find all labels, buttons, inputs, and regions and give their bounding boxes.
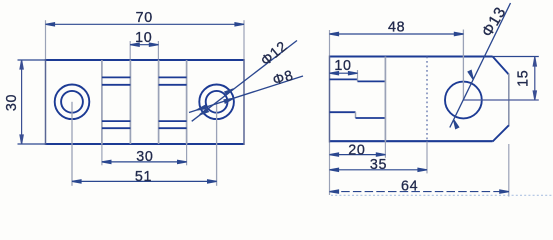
svg-text:30: 30 xyxy=(136,149,153,165)
svg-text:70: 70 xyxy=(136,10,153,26)
left view plate bottom edge xyxy=(46,143,245,145)
dimension 64 line xyxy=(330,190,509,193)
dimension 48 line xyxy=(330,32,464,35)
right view left edge xyxy=(329,56,331,143)
right hole inner circle xyxy=(206,91,228,113)
dimension 35 right extension xyxy=(426,142,428,174)
dimension 30 left side line xyxy=(20,60,23,144)
svg-text:15: 15 xyxy=(515,70,531,87)
right view bottom edge xyxy=(330,140,493,142)
right view top-right chamfer xyxy=(493,57,509,75)
slot edge line 2 xyxy=(129,60,131,144)
svg-text:30: 30 xyxy=(4,94,20,111)
svg-text:Φ8: Φ8 xyxy=(271,68,296,89)
dimension 35 line xyxy=(330,168,428,171)
right view top edge xyxy=(330,56,493,58)
right band groove lines xyxy=(159,77,187,128)
scan artifact dotted line xyxy=(331,194,553,196)
svg-text:35: 35 xyxy=(370,157,387,173)
dimension 20/35/64 left extension xyxy=(329,143,331,196)
left view plate top edge xyxy=(46,59,245,61)
lower step lines xyxy=(330,111,356,113)
left view plate left edge xyxy=(45,59,47,145)
dimension 10 extension (right view) xyxy=(357,70,359,79)
svg-text:51: 51 xyxy=(135,169,152,185)
dimension 30 left side extension lines xyxy=(18,60,46,144)
leader line phi12 xyxy=(192,41,297,122)
right view bottom-right chamfer xyxy=(493,125,509,141)
right hole outer circle xyxy=(199,85,234,120)
slot edge line 4 xyxy=(186,60,188,144)
dimension 20 line xyxy=(330,153,386,156)
leader line phi13 xyxy=(450,3,511,129)
right view right edge xyxy=(508,74,510,127)
hole phi13 circle xyxy=(445,82,482,119)
left hole outer circle xyxy=(55,85,90,120)
hidden dashed line xyxy=(426,57,428,142)
svg-text:20: 20 xyxy=(348,142,365,158)
dimension 10 line (right view) xyxy=(330,72,358,75)
slot edge line 3 xyxy=(158,60,160,144)
dimension 48 extension line xyxy=(329,30,331,56)
dimension 70 extension lines xyxy=(45,20,47,59)
dimension 10 extension lines (left view) xyxy=(129,41,131,60)
left hole centerline xyxy=(71,102,73,186)
svg-text:48: 48 xyxy=(388,20,405,36)
dimension 51 line xyxy=(72,180,217,183)
upper step lines xyxy=(330,78,358,80)
inner vertical edge xyxy=(384,57,386,142)
dimension 30 bottom extension lines xyxy=(101,144,103,165)
hole vertical centerline / dim 48 extension xyxy=(462,30,464,101)
dimension 30 bottom line xyxy=(102,160,187,163)
dimension 64 right extension xyxy=(508,144,510,197)
svg-text:Φ13: Φ13 xyxy=(479,4,510,40)
left band groove lines xyxy=(102,77,130,128)
left view plate right edge xyxy=(243,59,245,145)
dimension 15 line xyxy=(533,57,536,100)
slot edge line 1 xyxy=(101,60,103,144)
svg-text:Φ12: Φ12 xyxy=(258,38,291,69)
svg-text:10: 10 xyxy=(135,30,152,46)
dimension 20 right extension xyxy=(384,142,386,158)
right hole centerline xyxy=(216,102,218,186)
hole horizontal centerline / dim 15 extension xyxy=(463,99,538,101)
svg-text:10: 10 xyxy=(334,58,351,74)
dimension 70 line xyxy=(46,23,245,26)
dimension 10 line (left view) xyxy=(130,43,158,46)
svg-text:64: 64 xyxy=(401,179,418,195)
leader line phi8 xyxy=(189,76,303,113)
left hole inner circle xyxy=(61,91,83,113)
dimension 15 top extension xyxy=(493,56,539,58)
